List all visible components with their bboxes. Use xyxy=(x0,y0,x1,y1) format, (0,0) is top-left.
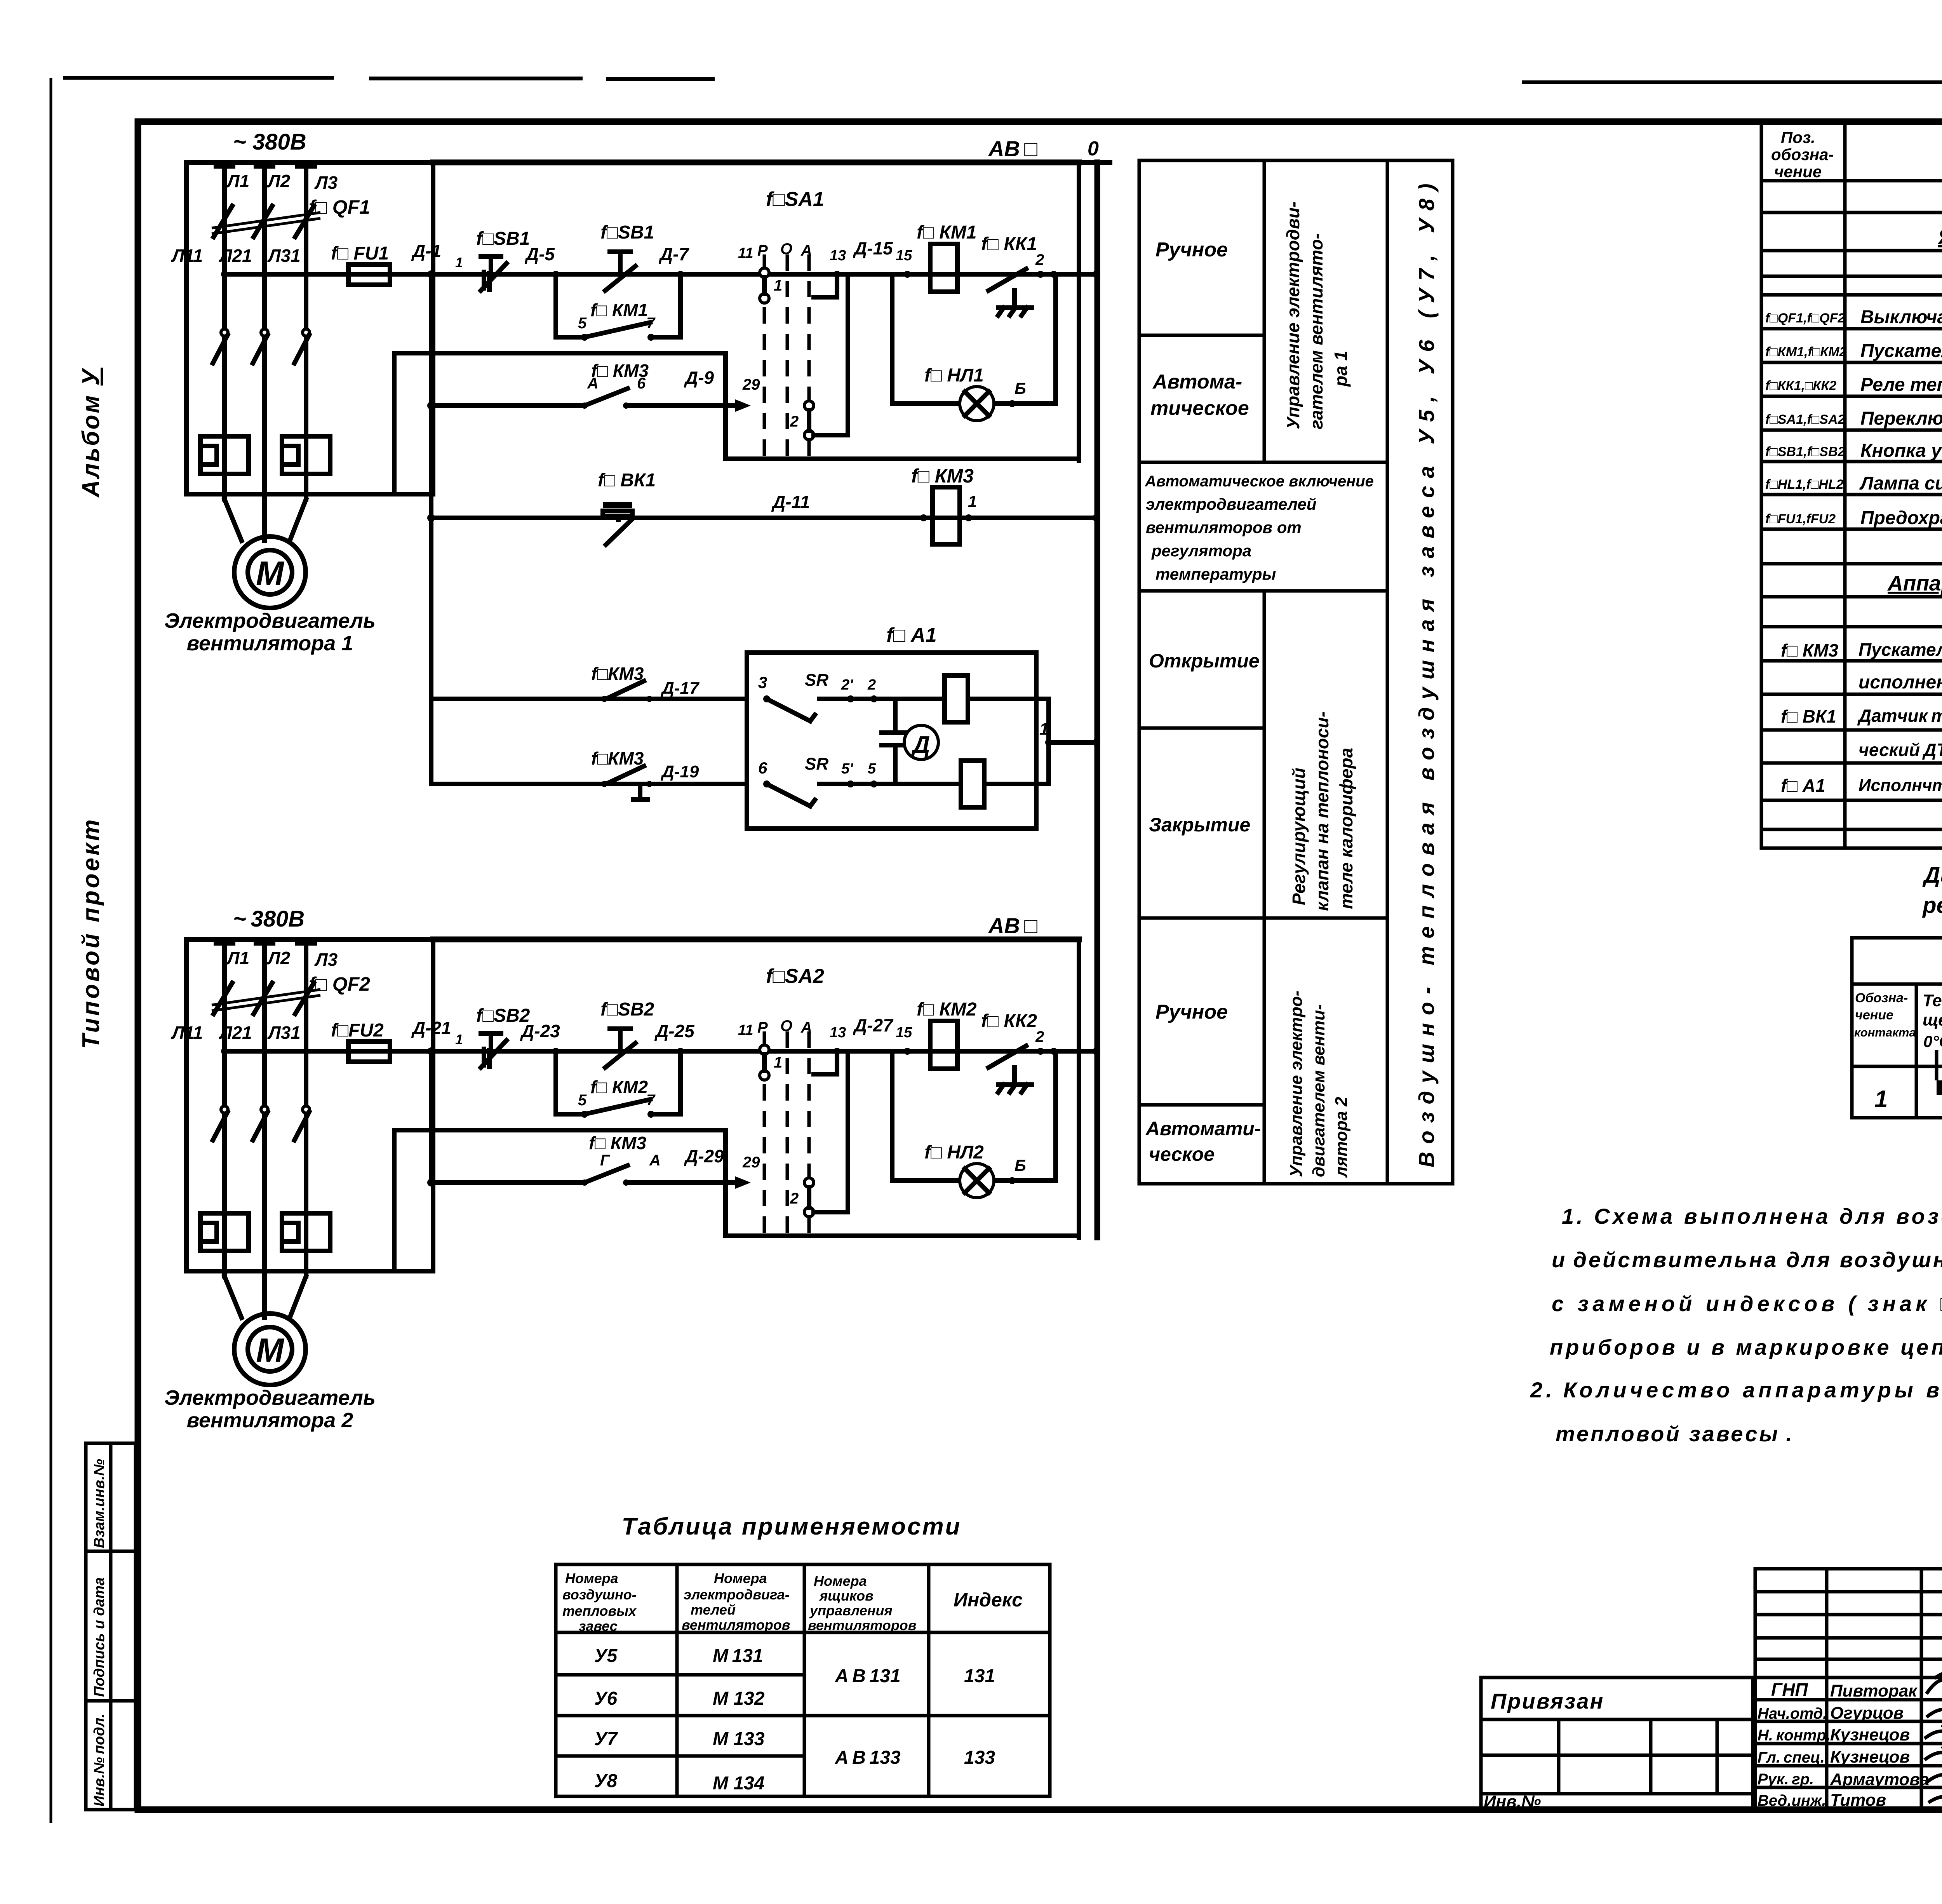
svg-text:7: 7 xyxy=(646,315,656,332)
svg-text:1: 1 xyxy=(774,277,782,294)
svg-text:f□ ВК1: f□ ВК1 xyxy=(598,470,656,491)
svg-text:f□ КМ3: f□ КМ3 xyxy=(591,361,649,381)
svg-text:6: 6 xyxy=(758,759,767,777)
svg-text:f□HL1,f□HL2: f□HL1,f□HL2 xyxy=(1765,477,1844,492)
svg-text:f□ QF2: f□ QF2 xyxy=(309,973,370,995)
svg-text:вентиляторов: вентиляторов xyxy=(808,1617,916,1633)
svg-text:двигателем венти-: двигателем венти- xyxy=(1309,1004,1328,1177)
svg-text:Регулирующий: Регулирующий xyxy=(1289,768,1309,905)
svg-text:f□ QF1: f□ QF1 xyxy=(309,196,370,218)
svg-text:Д-17: Д-17 xyxy=(660,679,700,698)
svg-text:f□ КМ1: f□ КМ1 xyxy=(917,222,977,243)
svg-text:Ящик АВО: Ящик АВО xyxy=(1937,225,1942,249)
svg-text:ческое: ческое xyxy=(1149,1143,1215,1165)
svg-text:Д-9: Д-9 xyxy=(684,368,714,388)
svg-text:f□ FU1: f□ FU1 xyxy=(331,243,389,264)
svg-text:1: 1 xyxy=(1039,719,1049,739)
svg-text:2: 2 xyxy=(790,1190,799,1207)
svg-text:Б: Б xyxy=(1015,1156,1026,1174)
svg-text:М 134: М 134 xyxy=(713,1773,764,1794)
svg-text:Армаутова: Армаутова xyxy=(1830,1770,1929,1789)
svg-text:0: 0 xyxy=(1088,138,1099,160)
svg-text:Д-25: Д-25 xyxy=(654,1021,695,1041)
svg-text:электродвигателей: электродвигателей xyxy=(1146,495,1317,513)
svg-text:Л1: Л1 xyxy=(226,948,249,968)
svg-text:Переключатель универсальный: Переключатель универсальный xyxy=(1860,408,1942,429)
svg-text:чение: чение xyxy=(1855,1008,1893,1023)
svg-text:У5: У5 xyxy=(594,1646,618,1666)
svg-text:Выключатель автоматический: Выключатель автоматический xyxy=(1860,307,1942,327)
svg-text:f□ КМ1: f□ КМ1 xyxy=(590,300,648,320)
svg-text:АВ □: АВ □ xyxy=(988,913,1037,938)
svg-text:ящиков: ящиков xyxy=(819,1588,874,1604)
svg-text:Кузнецов: Кузнецов xyxy=(1830,1747,1910,1766)
svg-text:f□SВ1: f□SВ1 xyxy=(476,228,530,249)
svg-text:Б: Б xyxy=(1015,379,1026,397)
svg-text:f□ НЛ2: f□ НЛ2 xyxy=(924,1142,984,1163)
svg-text:Управление электро-: Управление электро- xyxy=(1287,991,1306,1177)
svg-text:приборов и в маркировке: приборов и в маркировке цепей согласно т… xyxy=(1550,1335,1942,1359)
svg-text:f□ КК1: f□ КК1 xyxy=(981,234,1037,254)
svg-text:1: 1 xyxy=(968,492,977,510)
svg-text:13: 13 xyxy=(830,247,846,264)
svg-text:А: А xyxy=(800,242,812,259)
svg-text:вентиляторов от: вентиляторов от xyxy=(1146,518,1302,537)
svg-text:~ 380В: ~ 380В xyxy=(233,129,306,155)
svg-text:13: 13 xyxy=(830,1024,846,1041)
svg-text:управления: управления xyxy=(809,1603,893,1618)
svg-text:Л31: Л31 xyxy=(267,246,301,266)
svg-text:1: 1 xyxy=(455,1031,463,1047)
svg-text:Нач.отд.: Нач.отд. xyxy=(1758,1705,1827,1722)
svg-text:Л11: Л11 xyxy=(171,246,203,266)
svg-text:f□SB1,f□SB2: f□SB1,f□SB2 xyxy=(1765,444,1845,459)
svg-text:15: 15 xyxy=(896,1024,912,1041)
svg-text:Кнопка управления: Кнопка управления xyxy=(1860,441,1942,461)
svg-text:Датчик температуры камерный: Датчик температуры камерный биметали- xyxy=(1857,706,1942,726)
svg-text:Д-11: Д-11 xyxy=(771,492,810,512)
svg-text:тепловой завесы .: тепловой завесы . xyxy=(1556,1421,1794,1446)
svg-text:Индекс: Индекс xyxy=(954,1589,1023,1611)
svg-text:Вед.инж.: Вед.инж. xyxy=(1758,1792,1826,1809)
svg-text:2: 2 xyxy=(867,677,876,693)
svg-text:Л2: Л2 xyxy=(267,948,291,968)
svg-text:контакта: контакта xyxy=(1854,1026,1916,1039)
svg-text:Электродвигатель: Электродвигатель xyxy=(164,609,376,632)
svg-text:У8: У8 xyxy=(594,1771,618,1791)
svg-text:2: 2 xyxy=(1035,251,1044,268)
svg-text:Подпись и дата: Подпись и дата xyxy=(91,1577,108,1697)
svg-text:М 132: М 132 xyxy=(713,1688,765,1709)
svg-text:А В 133: А В 133 xyxy=(835,1747,901,1768)
svg-text:Диаграмма работы контактов: Диаграмма работы контактов xyxy=(1922,862,1942,888)
svg-text:Альбом У: Альбом У xyxy=(78,368,104,498)
svg-text:f□SА2: f□SА2 xyxy=(766,965,824,988)
svg-text:Управление электродви-: Управление электродви- xyxy=(1283,202,1303,429)
svg-text:Р: Р xyxy=(757,242,768,259)
svg-text:Н. контр.: Н. контр. xyxy=(1758,1727,1831,1744)
svg-text:Поз.: Поз. xyxy=(1781,128,1815,146)
svg-text:Л3: Л3 xyxy=(314,172,338,193)
svg-text:Электродвигатель: Электродвигатель xyxy=(164,1386,376,1409)
svg-text:29: 29 xyxy=(742,376,760,393)
svg-text:3: 3 xyxy=(758,673,767,692)
svg-text:М 133: М 133 xyxy=(713,1729,765,1749)
svg-text:Инв.№ подл.: Инв.№ подл. xyxy=(91,1714,108,1806)
svg-text:f□ КМ2: f□ КМ2 xyxy=(917,999,977,1020)
svg-text:тепловых: тепловых xyxy=(562,1603,637,1619)
svg-text:О: О xyxy=(780,240,792,258)
svg-text:ческий ДТКБ-53; 0÷30°С, ~ 220: ческий ДТКБ-53; 0÷30°С, ~ 220В xyxy=(1858,740,1942,760)
svg-text:5: 5 xyxy=(578,315,587,332)
svg-text:с заменой индексов ( знак: с заменой индексов ( знак □) в обозначен… xyxy=(1552,1291,1942,1316)
svg-text:теле калорифера: теле калорифера xyxy=(1336,748,1356,909)
svg-text:5: 5 xyxy=(868,761,876,777)
svg-text:Автоматическое включение: Автоматическое включение xyxy=(1145,473,1374,490)
svg-text:11: 11 xyxy=(738,245,753,261)
svg-text:Л21: Л21 xyxy=(219,246,252,266)
svg-text:29: 29 xyxy=(742,1154,760,1171)
svg-text:Воздушно- тепловая воздушная: Воздушно- тепловая воздушная завеса У5, … xyxy=(1414,176,1439,1167)
svg-text:Аппаратура по месту: Аппаратура по месту xyxy=(1887,571,1942,595)
svg-text:f□КК1,□КК2: f□КК1,□КК2 xyxy=(1765,378,1836,393)
svg-text:Предохранитель: Предохранитель xyxy=(1860,508,1942,528)
svg-text:f□ НЛ1: f□ НЛ1 xyxy=(924,365,984,386)
svg-text:SR: SR xyxy=(805,754,828,773)
svg-text:телей: телей xyxy=(691,1602,736,1618)
svg-text:Л31: Л31 xyxy=(267,1023,301,1043)
svg-text:О: О xyxy=(780,1017,792,1035)
svg-text:Пивторак: Пивторак xyxy=(1830,1681,1918,1700)
svg-text:Привязан: Привязан xyxy=(1491,1689,1604,1713)
svg-text:Открытие: Открытие xyxy=(1149,650,1260,672)
svg-text:f□ А1: f□ А1 xyxy=(1781,775,1825,796)
svg-text:вентилятора 1: вентилятора 1 xyxy=(187,632,353,655)
svg-text:клапан на теплоноси-: клапан на теплоноси- xyxy=(1312,711,1332,911)
svg-text:обозна-: обозна- xyxy=(1771,145,1834,164)
svg-text:5: 5 xyxy=(578,1092,587,1109)
svg-text:Инв.№: Инв.№ xyxy=(1484,1792,1541,1811)
svg-text:1: 1 xyxy=(455,254,463,270)
svg-text:Лампа сигнальная: Лампа сигнальная xyxy=(1859,473,1942,494)
svg-text:Д-19: Д-19 xyxy=(660,762,699,781)
svg-text:вентилятора 2: вентилятора 2 xyxy=(187,1409,353,1432)
svg-text:Температура воздуха в поме-: Температура воздуха в поме- xyxy=(1923,991,1942,1010)
svg-text:Ручное: Ручное xyxy=(1155,239,1228,261)
svg-text:воздушно-: воздушно- xyxy=(562,1587,637,1603)
svg-text:Л2: Л2 xyxy=(267,171,291,191)
svg-text:f□FU2: f□FU2 xyxy=(331,1020,384,1041)
svg-text:~ 380В: ~ 380В xyxy=(233,906,305,932)
svg-text:Взам.инв.№: Взам.инв.№ xyxy=(91,1459,108,1548)
svg-text:f□КМ3: f□КМ3 xyxy=(591,664,644,684)
svg-text:f□FU1,fFU2: f□FU1,fFU2 xyxy=(1765,512,1836,526)
svg-text:7: 7 xyxy=(646,1092,656,1109)
svg-text:f□КМ3: f□КМ3 xyxy=(591,748,644,768)
svg-text:Огурцов: Огурцов xyxy=(1830,1704,1904,1723)
svg-text:А В 131: А В 131 xyxy=(835,1666,901,1686)
svg-text:Гл. спец.: Гл. спец. xyxy=(1758,1749,1825,1766)
svg-text:15: 15 xyxy=(896,247,912,264)
svg-text:Автомати-: Автомати- xyxy=(1145,1118,1261,1139)
svg-text:чение: чение xyxy=(1774,162,1822,181)
svg-text:f□SA1,f□SA2: f□SA1,f□SA2 xyxy=(1765,412,1845,427)
svg-text:Д-27: Д-27 xyxy=(853,1015,894,1035)
svg-text:1: 1 xyxy=(1874,1086,1888,1113)
svg-text:Л3: Л3 xyxy=(314,949,338,970)
svg-text:2: 2 xyxy=(790,413,799,430)
svg-text:щении: щении xyxy=(1923,1010,1942,1030)
svg-text:Л1: Л1 xyxy=(226,171,249,191)
svg-text:электродвига-: электродвига- xyxy=(684,1587,790,1603)
svg-text:2. Количество аппаратуры: 2. Количество аппаратуры в перечне дано … xyxy=(1530,1378,1942,1402)
svg-text:1: 1 xyxy=(774,1054,782,1071)
svg-text:Д-1: Д-1 xyxy=(411,241,441,261)
svg-text:тическое: тическое xyxy=(1150,397,1249,420)
svg-text:Реле тепловое: Реле тепловое xyxy=(1860,375,1942,395)
svg-text:Д-7: Д-7 xyxy=(658,244,690,264)
svg-text:Д-15: Д-15 xyxy=(853,238,893,258)
svg-text:У6: У6 xyxy=(594,1688,618,1709)
svg-text:Г: Г xyxy=(600,1152,611,1169)
svg-text:и действительна для воздушн: и действительна для воздушно-тепловой за… xyxy=(1552,1247,1942,1272)
svg-text:Д-21: Д-21 xyxy=(411,1018,451,1038)
svg-text:Р: Р xyxy=(757,1019,768,1036)
svg-text:Ручное: Ручное xyxy=(1155,1001,1228,1023)
svg-text:Титов: Титов xyxy=(1830,1791,1886,1810)
svg-text:f□ КК2: f□ КК2 xyxy=(981,1011,1037,1031)
svg-text:регулятора: регулятора xyxy=(1151,542,1251,560)
svg-text:Д-5: Д-5 xyxy=(524,244,555,264)
svg-text:гателем вентилято-: гателем вентилято- xyxy=(1306,233,1326,429)
svg-text:Д: Д xyxy=(911,732,930,758)
svg-text:f□SВ1: f□SВ1 xyxy=(600,222,654,243)
svg-text:f□ А1: f□ А1 xyxy=(886,624,937,646)
svg-text:f□SВ2: f□SВ2 xyxy=(600,999,654,1020)
svg-text:Автома-: Автома- xyxy=(1152,371,1242,393)
svg-text:Обозна-: Обозна- xyxy=(1855,991,1908,1005)
svg-text:температуры: температуры xyxy=(1155,565,1276,583)
svg-text:АВ □: АВ □ xyxy=(988,136,1037,161)
svg-text:Номера: Номера xyxy=(814,1573,867,1589)
svg-text:Исполнчтельный механизм МЭО-0,: Исполнчтельный механизм МЭО-0,63;~ 220В xyxy=(1858,776,1942,795)
svg-text:0°С: 0°С xyxy=(1923,1032,1942,1050)
svg-text:ГНП: ГНП xyxy=(1771,1679,1808,1700)
svg-text:ра 1: ра 1 xyxy=(1331,351,1351,387)
svg-text:Рук. гр.: Рук. гр. xyxy=(1758,1771,1814,1788)
svg-text:1. Схема выполнена для: 1. Схема выполнена для воздушно - теплов… xyxy=(1562,1204,1942,1228)
svg-text:f□QF1,f□QF2: f□QF1,f□QF2 xyxy=(1765,311,1845,326)
svg-text:131: 131 xyxy=(964,1666,995,1686)
svg-text:Закрытие: Закрытие xyxy=(1149,814,1250,836)
svg-text:5': 5' xyxy=(841,761,854,777)
svg-text:SR: SR xyxy=(805,671,828,690)
svg-text:завес: завес xyxy=(579,1618,618,1634)
svg-text:f□ КМ3: f□ КМ3 xyxy=(911,465,974,487)
svg-text:лятора 2: лятора 2 xyxy=(1332,1097,1351,1178)
svg-text:А: А xyxy=(649,1152,661,1169)
svg-text:Д-23: Д-23 xyxy=(520,1021,560,1041)
svg-text:2: 2 xyxy=(1035,1028,1044,1045)
svg-text:f□SА1: f□SА1 xyxy=(766,188,824,211)
svg-text:вентиляторов: вентиляторов xyxy=(682,1617,790,1633)
svg-text:Номера: Номера xyxy=(714,1570,767,1586)
svg-text:Л11: Л11 xyxy=(171,1023,203,1043)
svg-text:А: А xyxy=(800,1019,812,1036)
svg-text:f□КМ1,f□КМ2: f□КМ1,f□КМ2 xyxy=(1765,345,1847,359)
svg-text:Номера: Номера xyxy=(565,1570,618,1586)
svg-text:Кузнецов: Кузнецов xyxy=(1830,1725,1910,1744)
svg-text:f□ ВК1: f□ ВК1 xyxy=(1781,706,1836,726)
svg-text:Пускатель магнитныи ПМЕ-061;: Пускатель магнитныи ПМЕ-061; Uкат.~ 220В xyxy=(1858,639,1942,660)
svg-text:У7: У7 xyxy=(594,1729,618,1749)
svg-text:f□ КМ3: f□ КМ3 xyxy=(1781,640,1838,660)
svg-text:Пускатель магнитный: Пускатель магнитный xyxy=(1860,341,1942,361)
svg-text:регулятора температуры: регулятора температуры xyxy=(1922,893,1942,918)
svg-text:Таблица применяемости: Таблица применяемости xyxy=(622,1513,962,1540)
svg-text:2': 2' xyxy=(841,677,854,693)
svg-text:f□ КМ2: f□ КМ2 xyxy=(590,1077,648,1097)
svg-text:Типовой проект: Типовой проект xyxy=(78,817,104,1049)
svg-text:М 131: М 131 xyxy=(713,1646,763,1666)
svg-text:исполнение IP54: исполнение IP54 xyxy=(1858,672,1942,693)
svg-text:133: 133 xyxy=(964,1747,995,1768)
svg-text:11: 11 xyxy=(738,1022,753,1038)
svg-text:Л21: Л21 xyxy=(219,1023,252,1043)
svg-text:f□ КМ3: f□ КМ3 xyxy=(589,1133,646,1153)
svg-text:Д-29: Д-29 xyxy=(684,1146,724,1166)
